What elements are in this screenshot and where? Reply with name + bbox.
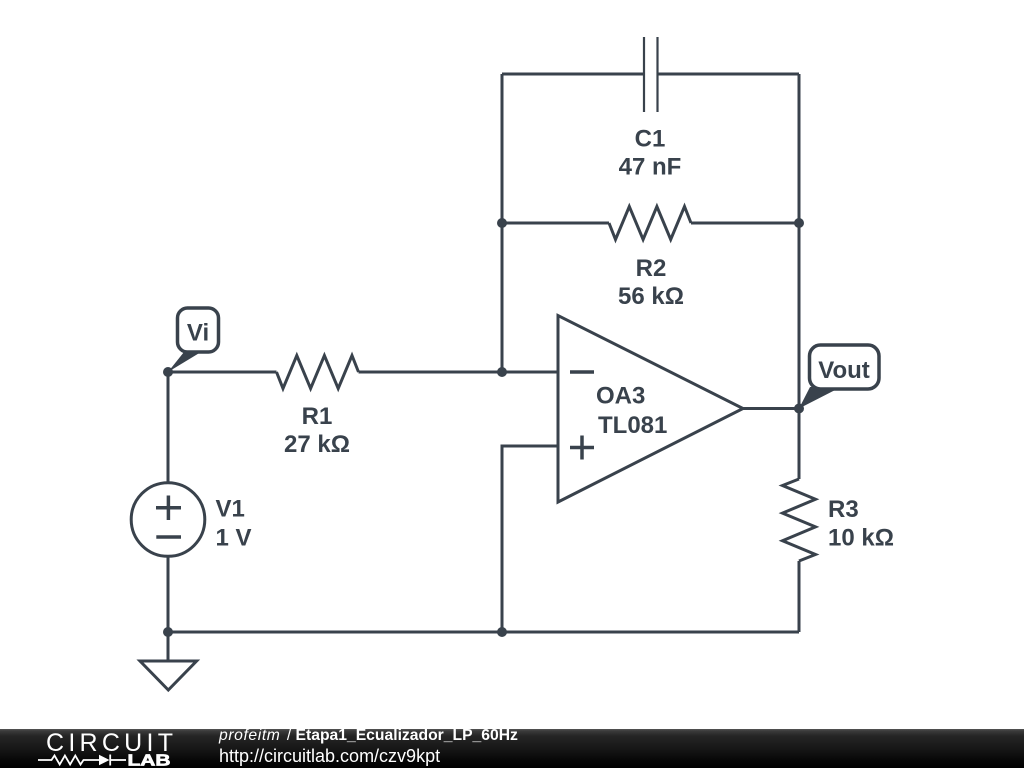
flag Vi xyxy=(168,308,219,372)
ground xyxy=(140,632,197,690)
svg-text:Vout: Vout xyxy=(818,357,870,384)
svg-text:47 nF: 47 nF xyxy=(619,154,682,181)
label R1 value xyxy=(284,403,350,458)
svg-text:Vi: Vi xyxy=(187,320,209,347)
wire V1 bottom xyxy=(167,556,170,632)
node R2 right junction xyxy=(794,218,804,228)
resistor R1 xyxy=(277,356,359,389)
wire R2 left xyxy=(502,222,609,225)
wire right vertical (feedback right) xyxy=(798,74,801,479)
wire R3 bottom xyxy=(798,561,801,632)
svg-text:OA3: OA3 xyxy=(596,383,645,410)
op-amp U1 triangle xyxy=(558,316,743,503)
svg-text:56 kΩ: 56 kΩ xyxy=(618,283,684,310)
label OA3 TL081 xyxy=(596,383,667,440)
svg-text:C1: C1 xyxy=(635,126,666,153)
svg-text:1 V: 1 V xyxy=(216,525,252,552)
capacitor C1 xyxy=(644,37,658,112)
op-amp minus sign xyxy=(570,370,594,374)
op-amp plus sign xyxy=(570,436,594,460)
wire top-left to C1 xyxy=(502,73,644,76)
wire op-amp plus input xyxy=(502,446,558,632)
wire bottom rail xyxy=(168,631,799,634)
wire R1 right to op-amp minus input xyxy=(359,371,559,374)
flag Vout xyxy=(799,345,879,409)
svg-text:10 kΩ: 10 kΩ xyxy=(828,525,894,552)
node plus-branch bottom junction xyxy=(497,627,507,637)
node R1/feedback junction xyxy=(497,367,507,377)
svg-text:V1: V1 xyxy=(216,496,245,523)
wire R1 left xyxy=(168,371,277,374)
svg-text:R1: R1 xyxy=(302,403,333,430)
node ground junction xyxy=(163,627,173,637)
wire V1 top xyxy=(167,372,170,483)
label R3 value xyxy=(828,496,894,552)
voltage source V1 xyxy=(131,483,205,557)
svg-text:TL081: TL081 xyxy=(598,412,667,439)
label C1 value xyxy=(619,126,682,181)
wire C1 to top-right xyxy=(658,73,800,76)
node R2 left junction xyxy=(497,218,507,228)
resistor R3 xyxy=(783,479,816,561)
node Vi junction xyxy=(163,367,173,377)
wire left vertical (feedback left) xyxy=(501,74,504,372)
wire op-amp output xyxy=(743,407,799,410)
label R2 value xyxy=(618,255,684,310)
svg-text:R2: R2 xyxy=(636,255,667,282)
footer bar xyxy=(0,729,1024,768)
wire R2 right xyxy=(691,222,799,225)
svg-text:27 kΩ: 27 kΩ xyxy=(284,431,350,458)
CircuitLab logo xyxy=(0,728,200,768)
svg-text:LAB: LAB xyxy=(128,753,171,768)
svg-text:R3: R3 xyxy=(828,496,859,523)
resistor R2 xyxy=(609,207,691,240)
node Vout junction xyxy=(794,404,804,414)
label V1 value xyxy=(216,496,252,552)
